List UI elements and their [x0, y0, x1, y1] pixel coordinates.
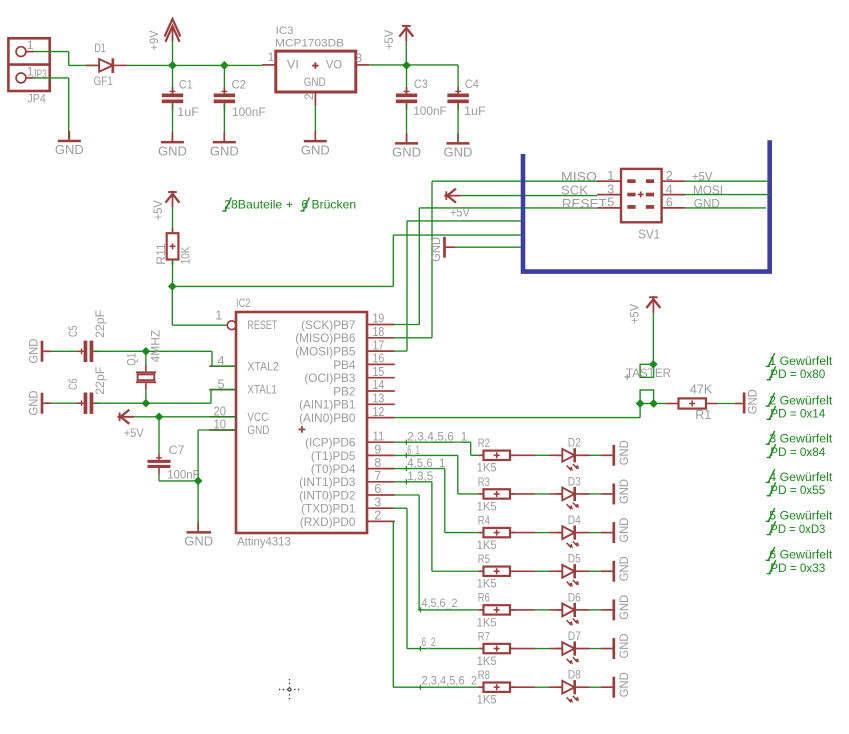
wire MOSI pin17 to cable [395, 221, 521, 351]
svg-text:4: 4 [666, 182, 673, 196]
wire D4 to GND [590, 532, 602, 534]
note PD = 0x14 [767, 406, 826, 421]
resistor R6 [478, 605, 514, 614]
svg-text:8: 8 [374, 456, 381, 470]
svg-text:GND: GND [745, 389, 759, 414]
svg-text:(AIN1)PB1: (AIN1)PB1 [299, 398, 355, 412]
note PD = 0xD3 [767, 521, 826, 536]
wire R5 from pin [395, 482, 479, 571]
svg-text:MOSI: MOSI [693, 183, 723, 197]
svg-text:XTAL1: XTAL1 [247, 383, 277, 397]
net label 4,5,6_1 [404, 456, 446, 471]
svg-text:(T1)PD5: (T1)PD5 [311, 449, 356, 463]
wire R2 to D2 [510, 454, 562, 456]
junction RESET net [168, 282, 177, 291]
svg-text:D8: D8 [568, 668, 581, 682]
svg-text:MISO: MISO [561, 170, 597, 184]
supply +5V arrow VCC [117, 410, 134, 424]
label D1 [94, 41, 106, 55]
svg-text:SV1: SV1 [638, 227, 660, 241]
net label RESET [562, 197, 607, 211]
wire pin12 to TASTER [395, 404, 640, 418]
pin 11 (ICP)PD6 [305, 429, 395, 449]
svg-text:PD = 0x14: PD = 0x14 [770, 407, 825, 421]
net label 4,5,6_2 [418, 596, 458, 612]
svg-text:17: 17 [373, 338, 385, 352]
pin 9 (T1)PD5 [311, 443, 395, 463]
label R11 [154, 243, 168, 265]
wire +5V arrow to SV1 pin3 [461, 195, 597, 197]
junction TASTER bottom left [636, 399, 645, 408]
pin 3 SV1 [597, 182, 621, 196]
pin 15 (OCI)PB3 [304, 365, 394, 385]
svg-text:(MISO)PB6: (MISO)PB6 [295, 331, 356, 345]
wire +5V arrow to rail [405, 42, 407, 66]
svg-text:GND: GND [55, 142, 84, 157]
junction TASTER top [649, 360, 658, 369]
value 1K5 R2 [477, 461, 497, 475]
svg-text:VO: VO [326, 57, 342, 71]
wire RESET to IC2 pin1 [172, 286, 227, 325]
pin 14 PB2 [333, 378, 395, 398]
label R6 [478, 591, 490, 605]
value 1uF C1 [177, 105, 199, 119]
label C7 [169, 443, 185, 457]
pin 1 label JP4 bottom [27, 64, 34, 78]
svg-text:1K5: 1K5 [477, 654, 497, 668]
wire D1 pins [86, 64, 127, 66]
wire D1 to +9V node [127, 64, 262, 66]
name JP3 [32, 67, 47, 81]
pin name XTAL2 [247, 359, 279, 373]
svg-text:3 Gewürfelt: 3 Gewürfelt [769, 432, 833, 446]
wire IC2 pin10 to GND [198, 430, 236, 531]
pin 1 IC3 [262, 50, 276, 65]
supply +5V arrow R11 [166, 191, 180, 208]
svg-text:28Bauteile +: 28Bauteile + [224, 197, 293, 211]
wire IC3 out rail [369, 65, 458, 94]
svg-text:XTAL2: XTAL2 [247, 359, 279, 373]
svg-text:SCK: SCK [561, 184, 589, 198]
svg-text:22pF: 22pF [93, 367, 107, 395]
wire D3 to GND [590, 493, 602, 495]
ground left of C5 [26, 338, 51, 363]
svg-text:GND: GND [617, 633, 631, 658]
label D7 [568, 629, 581, 643]
pin 6 SV1 [662, 196, 686, 210]
svg-text:12: 12 [373, 405, 385, 419]
wire R11 to junction [172, 260, 174, 287]
wire R4 to D4 [510, 532, 562, 534]
svg-text:6: 6 [374, 482, 381, 496]
svg-text:D4: D4 [568, 513, 581, 527]
resistor R1 [679, 398, 707, 408]
ground D6 [601, 595, 631, 621]
resistor R3 [478, 489, 514, 498]
LED D4 [557, 526, 590, 549]
pin 16 PB4 [333, 352, 395, 372]
svg-text:R7: R7 [478, 629, 490, 643]
label +5V net [450, 206, 471, 220]
svg-text:1 Gewürfelt: 1 Gewürfelt [769, 354, 833, 368]
capacitor C6 [51, 393, 100, 414]
ground under C1 [158, 132, 187, 158]
pin name XTAL1 [247, 383, 277, 397]
switch TASTER [625, 364, 654, 403]
junction VCC node [155, 412, 164, 421]
LED D5 [557, 564, 590, 587]
junction TASTER bottom right [649, 399, 658, 408]
cable frame blue [523, 140, 770, 271]
svg-text:(AIN0)PB0: (AIN0)PB0 [299, 411, 356, 425]
capacitor C1 [162, 65, 183, 140]
svg-text:1K5: 1K5 [477, 693, 497, 707]
label IC2 [236, 298, 251, 310]
svg-text:GND: GND [304, 75, 326, 89]
pin 2 SV1 [662, 169, 686, 183]
svg-text:+5V: +5V [450, 206, 471, 220]
wire D8 to GND [590, 686, 602, 688]
value 100nF C7 [167, 467, 200, 481]
ground under C4 [444, 133, 473, 159]
connector JP4 [8, 38, 49, 91]
wire R8 from pin [393, 521, 478, 687]
svg-text:(T0)PD4: (T0)PD4 [311, 462, 356, 476]
svg-text:(INT0)PD2: (INT0)PD2 [299, 488, 355, 502]
label D4 [568, 513, 581, 527]
label D5 [568, 552, 581, 566]
note 3 Gewürfelt [766, 431, 833, 446]
pin 2 IC3 [302, 92, 316, 106]
svg-text:RESET: RESET [562, 197, 607, 211]
svg-text:2 Gewürfelt: 2 Gewürfelt [769, 393, 833, 407]
capacitor C7 [148, 417, 171, 481]
net label GND right [694, 197, 720, 211]
svg-text:GND: GND [617, 672, 631, 697]
pin 8 (T0)PD4 [311, 456, 395, 476]
wire JP4 pin2 to GND [34, 78, 69, 140]
pin 5 XTAL1 [209, 377, 236, 391]
value 22pF C5 [93, 310, 107, 338]
svg-text:JP3: JP3 [32, 67, 47, 81]
svg-text:(MOSI)PB5: (MOSI)PB5 [295, 345, 356, 359]
svg-text:VI: VI [287, 57, 299, 71]
svg-text:1K5: 1K5 [477, 615, 497, 629]
svg-text:6 Gewürfelt: 6 Gewürfelt [769, 548, 833, 562]
wire R1 to GND [706, 403, 735, 405]
ground D4 [601, 517, 631, 543]
value MCP1703DB [275, 37, 344, 49]
label +9V [147, 30, 161, 51]
wire R5 to D5 [510, 570, 562, 572]
label Q1 [124, 353, 138, 366]
svg-text:PD = 0x55: PD = 0x55 [770, 483, 825, 497]
LED D2 [557, 448, 590, 471]
svg-text:18: 18 [373, 325, 385, 339]
resistor R8 [478, 683, 514, 692]
resistor R11 [167, 228, 179, 265]
label R1 [695, 408, 711, 422]
wire SV1 pin2 to cable [685, 180, 768, 182]
label D2 [568, 436, 581, 450]
svg-text:GND: GND [301, 142, 330, 157]
label C5 [66, 325, 80, 337]
pin 18 (MISO)PB6 [295, 325, 395, 345]
pin 7 (INT1)PD3 [299, 469, 395, 489]
svg-text:+5V: +5V [382, 29, 396, 50]
svg-text:JP4: JP4 [27, 91, 46, 105]
note 6 Bruecken [301, 197, 356, 211]
svg-text:GND: GND [617, 595, 631, 620]
svg-text:6_2: 6_2 [422, 635, 436, 649]
wire D5 to GND [590, 570, 602, 572]
pin name GND [247, 423, 269, 437]
svg-text:D5: D5 [568, 552, 581, 566]
svg-text:6 Brücken: 6 Brücken [301, 197, 356, 211]
svg-text:PD = 0x84: PD = 0x84 [770, 445, 825, 459]
note PD = 0x33 [767, 560, 826, 575]
svg-text:PB2: PB2 [333, 384, 355, 398]
capacitor C2 [214, 65, 235, 140]
label R8 [478, 668, 490, 682]
wire +5V to VCC pin [134, 416, 236, 418]
pin 17 (MOSI)PB5 [295, 338, 395, 358]
svg-text:C2: C2 [232, 77, 247, 91]
net label 2,3,4,5,6_2 [418, 673, 477, 689]
wire SV1 pin6 to cable [685, 207, 766, 209]
resistor R5 [478, 567, 514, 576]
note 4 Gewürfelt [766, 469, 833, 484]
svg-text:PB4: PB4 [333, 358, 356, 372]
ground under C3 [392, 133, 421, 159]
label +5V TASTER [627, 303, 641, 324]
capacitor C5 [51, 341, 100, 362]
value 100nF C3 [413, 104, 447, 118]
label C3 [414, 77, 428, 91]
svg-text:TASTER: TASTER [626, 366, 671, 380]
wire SV1 pin4 to cable [685, 194, 770, 196]
svg-text:GF1: GF1 [94, 74, 113, 88]
svg-text:R3: R3 [478, 475, 490, 489]
value 100nF C2 [232, 105, 266, 119]
pin 5 SV1 [597, 196, 621, 210]
svg-text:3: 3 [374, 495, 381, 509]
svg-text:7: 7 [374, 469, 381, 483]
svg-text:GND: GND [158, 143, 187, 158]
LED D8 [557, 680, 590, 703]
pin 1 RESET bubble [215, 308, 236, 329]
svg-text:1K5: 1K5 [477, 538, 497, 552]
svg-text:(ICP)PD6: (ICP)PD6 [305, 436, 356, 450]
ground under IC2 [184, 522, 213, 548]
note 2 Gewürfelt [766, 393, 833, 408]
value 1K5 R7 [477, 654, 497, 668]
svg-text:+5V: +5V [124, 426, 145, 440]
ground D7 [601, 633, 631, 659]
wire C5 to XTAL2 [93, 351, 236, 366]
svg-text:D1: D1 [94, 41, 106, 55]
svg-text:+5V: +5V [627, 303, 641, 324]
ground under JP4 [55, 131, 84, 157]
svg-text:(TXD)PD1: (TXD)PD1 [301, 502, 355, 516]
capacitor C4 [447, 87, 468, 142]
value 1K5 R4 [477, 538, 497, 552]
svg-text:11: 11 [373, 429, 385, 443]
svg-text:2: 2 [666, 169, 673, 183]
label +5V top [382, 29, 396, 50]
ground left of C6 [26, 390, 51, 415]
wire D6 to GND [590, 609, 602, 611]
svg-text:PD = 0x80: PD = 0x80 [770, 367, 825, 381]
LED D6 [557, 603, 590, 626]
label D3 [568, 474, 581, 488]
wire C6 to XTAL1 [93, 390, 236, 404]
svg-text:19: 19 [373, 312, 385, 326]
svg-text:GND: GND [392, 145, 421, 160]
wire RESET to ISP [172, 235, 520, 286]
svg-text:R8: R8 [478, 668, 490, 682]
svg-text:4MHZ: 4MHZ [148, 329, 162, 362]
svg-text:D6: D6 [568, 590, 581, 604]
svg-text:2: 2 [302, 93, 316, 100]
origin cross mark [279, 679, 300, 700]
svg-text:2: 2 [374, 509, 381, 523]
wire TASTER to R1 [654, 403, 679, 405]
net label 1,3,5 [404, 469, 434, 484]
net label MOSI [693, 183, 723, 197]
svg-text:15: 15 [373, 365, 385, 379]
pin 6 (INT0)PD2 [299, 482, 395, 502]
net label +5V right [692, 169, 713, 183]
connector SV1 [621, 169, 662, 222]
ground D2 [601, 440, 631, 466]
svg-text:GND: GND [210, 143, 239, 158]
value 1K5 R5 [477, 577, 497, 591]
svg-text:(RXD)PD0: (RXD)PD0 [300, 515, 356, 529]
svg-text:RESET: RESET [247, 318, 277, 332]
svg-text:C3: C3 [414, 77, 428, 91]
svg-text:D3: D3 [568, 474, 581, 488]
label D6 [568, 590, 581, 604]
svg-text:6: 6 [666, 196, 673, 210]
svg-text:C6: C6 [66, 378, 80, 390]
wire R8 to D8 [510, 686, 562, 688]
wire R6 from pin [395, 495, 479, 610]
svg-text:3: 3 [607, 182, 614, 196]
svg-text:D7: D7 [568, 629, 581, 643]
pin 1 SV1 [597, 169, 621, 183]
pin 4 SV1 [662, 182, 686, 196]
label R4 [478, 513, 490, 527]
pin 4 XTAL2 [209, 354, 236, 368]
junction node +5V at C3 [402, 61, 411, 70]
pin 13 (AIN1)PB1 [299, 392, 395, 412]
svg-text:C5: C5 [66, 325, 80, 337]
svg-text:2,3,4,5,6_2: 2,3,4,5,6_2 [422, 673, 478, 687]
svg-text:1uF: 1uF [464, 104, 486, 118]
regulator IC3 [276, 51, 356, 92]
check slash on 6 [300, 198, 309, 211]
pin 1 label JP4 top [27, 38, 34, 52]
wire D2 to GND [590, 454, 602, 456]
name JP4 [27, 91, 46, 105]
wire R7 to D7 [510, 648, 562, 650]
capacitor C3 [396, 65, 417, 142]
junction node VIN at C1 [168, 61, 177, 70]
supply +9V arrow [165, 19, 181, 42]
value 10K R11 [179, 247, 193, 265]
wire +5V to TASTER [652, 313, 654, 364]
svg-text:VCC: VCC [247, 410, 268, 424]
mcu IC2 box [236, 312, 367, 533]
ground on cable wire [429, 237, 455, 262]
pin 2 (RXD)PD0 [300, 509, 395, 529]
wire JP4 pin1 to D1 [34, 52, 99, 66]
note 5 Gewürfelt [766, 508, 833, 523]
svg-text:+9V: +9V [147, 30, 161, 51]
svg-text:3: 3 [355, 51, 362, 65]
svg-text:GND: GND [617, 440, 631, 465]
value 1uF C4 [464, 104, 486, 118]
svg-text:R2: R2 [478, 436, 490, 450]
pin 20 VCC [209, 405, 236, 419]
svg-text:6_1: 6_1 [407, 443, 420, 457]
svg-text:(INT1)PD3: (INT1)PD3 [299, 475, 356, 489]
svg-text:GND: GND [26, 338, 40, 363]
svg-text:GND: GND [429, 237, 443, 262]
label R3 [478, 475, 490, 489]
net label 6_1 [404, 443, 420, 458]
ground D5 [601, 556, 631, 582]
ground D8 [601, 672, 631, 698]
net label SCK [561, 184, 589, 198]
junction node VIN at C2 [220, 61, 229, 70]
label +5V VCC [124, 426, 145, 440]
ground right of R1 [735, 389, 759, 414]
label SV1 [638, 227, 660, 241]
svg-text:1: 1 [27, 38, 34, 52]
svg-text:1K5: 1K5 [477, 499, 497, 513]
ground under C2 [210, 132, 239, 158]
svg-text:GND: GND [617, 556, 631, 581]
ground under IC3 [301, 131, 330, 157]
wire +5V to R11 [172, 208, 174, 234]
value 22pF C6 [93, 367, 107, 395]
svg-text:GND: GND [247, 423, 269, 437]
label D8 [568, 668, 581, 682]
wire C7 to GND [159, 480, 198, 482]
svg-text:100nF: 100nF [232, 105, 266, 119]
svg-text:5 Gewürfelt: 5 Gewürfelt [769, 509, 833, 523]
svg-text:C4: C4 [465, 77, 479, 91]
svg-text:1K5: 1K5 [477, 461, 497, 475]
svg-text:1,3,5: 1,3,5 [407, 469, 433, 483]
label +5V R11 [151, 199, 165, 220]
svg-text:13: 13 [373, 392, 385, 406]
svg-text:GND: GND [617, 517, 631, 542]
wire D7 to GND [590, 648, 602, 650]
svg-text:16: 16 [373, 352, 385, 366]
svg-text:IC2: IC2 [236, 298, 251, 310]
wire R7 from pin [395, 508, 479, 648]
svg-text:1: 1 [268, 50, 275, 64]
svg-text:R1: R1 [695, 408, 711, 422]
svg-text:100nF: 100nF [413, 104, 447, 118]
note PD = 0x80 [767, 366, 826, 381]
svg-text:1: 1 [215, 308, 222, 322]
svg-text:14: 14 [373, 378, 385, 392]
value 1K5 R6 [477, 615, 497, 629]
